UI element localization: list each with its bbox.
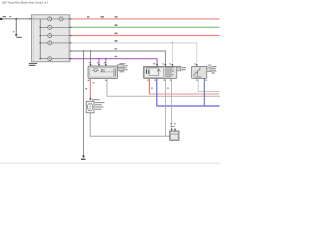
wire purple pin2 (105, 59, 107, 65)
wire motor gray pin (90, 51, 92, 65)
wire filter to resistor (90, 113, 170, 136)
wire relay2 blue pin (203, 78, 205, 106)
relay2 connector stub (207, 67, 211, 72)
wire relay1 blue pin to blue bus (157, 78, 220, 106)
wire purple row6 (70, 59, 157, 67)
noise filter text (95, 102, 105, 103)
fuse box junction block (32, 15, 70, 62)
wire red row3 (70, 35, 220, 37)
resistor arrows (171, 129, 173, 131)
fuse F1 (48, 17, 52, 21)
relay2 bottom pin labels (196, 80, 198, 81)
fuse box label (29, 63, 38, 64)
label row6 (115, 56, 118, 57)
blower motor assembly (88, 66, 118, 79)
label 2 (9, 16, 11, 17)
relay1 connector stub (177, 68, 181, 71)
relay2 top arrow (196, 64, 198, 66)
label 1 (85, 88, 87, 89)
relay1 top arrows (156, 64, 158, 66)
motor stub text (119, 62, 125, 65)
node motor gray (90, 50, 92, 52)
node purple1 (98, 58, 100, 60)
wire white row4 (70, 43, 197, 67)
relay1 blower relay (143, 66, 177, 78)
wire motor red pin (89, 79, 91, 100)
wire relay1 gray pin long (165, 78, 167, 136)
fuse F5 (48, 41, 52, 45)
internal bus (39, 19, 41, 59)
wire gray row5 (70, 51, 165, 66)
label W-B (3, 16, 6, 17)
noise filter (86, 101, 94, 113)
battery terminal (0, 18, 2, 20)
wire relay1 gray pin 2 (171, 78, 173, 131)
motor connector stub (118, 65, 124, 68)
node row4 branch (172, 42, 174, 44)
relay1 text column (165, 66, 175, 69)
relay2 (192, 66, 207, 78)
label row5 (115, 48, 118, 49)
wire green row2 (70, 26, 220, 28)
resistor box (170, 131, 179, 140)
label row4 (115, 40, 118, 42)
wire purple pin1 (98, 59, 100, 65)
node purple2 (105, 58, 107, 60)
fuse F4 (48, 34, 52, 38)
motor bottom pin labels (88, 80, 90, 81)
fuse F3 (48, 25, 52, 29)
wire ground drop (15, 19, 17, 35)
node junction (15, 18, 17, 20)
wire color labels (151, 88, 153, 89)
resistor pin stub (174, 129, 176, 131)
label A (13, 31, 15, 32)
label row3 (115, 33, 118, 35)
wire motor gray bottom to bus (107, 79, 220, 97)
footer line (0, 162, 220, 164)
arrow into filter (89, 98, 91, 100)
labels row1 (87, 16, 89, 17)
svg-text:2007 Toyota Prius Blower Motor: 2007 Toyota Prius Blower Motor Circuit 1… (2, 1, 49, 4)
relay1 top pin labels (153, 63, 155, 64)
fuse F6 (48, 57, 52, 61)
wire main feed (0, 18, 32, 20)
ground left GB (15, 34, 18, 36)
internal row wires (32, 18, 70, 20)
fuse F2 (59, 17, 63, 21)
relay1 bottom pin labels (147, 80, 149, 81)
wire relay1 top light pin (171, 43, 173, 67)
filter top label (92, 99, 100, 100)
label row2 (115, 24, 118, 26)
node ground branch (83, 50, 85, 52)
wire red row1 (70, 18, 220, 20)
arrow into fuse box (30, 18, 32, 20)
wire long ground branch (83, 51, 85, 156)
wire relay1 red pin to pink bus (149, 78, 219, 94)
wire relay2 gray pin to right (198, 78, 220, 91)
node dots on bus (39, 27, 41, 29)
motor top pin labels (89, 61, 91, 64)
ground bottom (82, 155, 84, 157)
